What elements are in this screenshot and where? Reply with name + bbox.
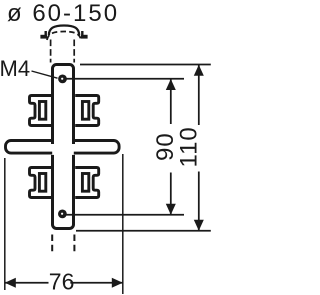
screw hole M4 top [58,75,67,84]
right foot flange [81,35,88,39]
horizontal strap right piece [6,141,120,154]
arrow 110 down [194,220,204,231]
svg-text:M4: M4 [0,56,30,81]
extension line 76 right [122,154,124,294]
bow inner edge left riser [45,31,47,35]
arrow 76 right [112,278,123,288]
extension line bottom of bar (110) [76,230,211,232]
svg-text:76: 76 [49,269,75,295]
white crossing gap where strap passes the bar (right edge) [71,144,75,155]
svg-text:110: 110 [176,126,203,167]
extension line top of bar (110) [80,64,211,66]
dimension line 76 left part [5,282,49,284]
hidden pipe saddle dashed arc [47,32,81,41]
clamp jaw row2 left [30,168,54,198]
white crossing gap where strap passes the bar (left edge) [50,144,54,155]
arrow 90 up [166,79,176,90]
clamp jaw row2 right [75,168,99,198]
left foot flange [40,35,47,39]
clamp jaw row1 left [30,96,54,126]
extension line 76 left [4,158,6,290]
arrow 76 left [5,278,16,288]
horizontal strap left piece [6,141,120,154]
screw hole bottom [58,210,67,219]
clamp jaw row1 right [75,96,99,126]
arrow 110 up [194,65,204,76]
hidden edge dashed right (dome to bar) [73,40,75,63]
extension line bottom hole (90) [67,214,185,216]
leader line M4 to hole [32,71,58,78]
vertical mounting bar [53,65,74,229]
hidden edge dashed left (below bar) [51,235,53,253]
hidden edge dashed right (below bar) [73,235,75,253]
arrow 90 down [166,204,176,215]
hidden edge dashed left (dome to bar) [50,40,52,63]
dimension line 110 [198,65,200,125]
dimension line 90 [170,79,172,124]
extension line top hole (90) [67,78,185,80]
dimension line 76 right part [70,282,123,284]
pipe clamp bow (dome) [49,26,79,36]
bow inner edge right riser [81,31,83,35]
svg-text:ø 60-150: ø 60-150 [7,0,119,27]
